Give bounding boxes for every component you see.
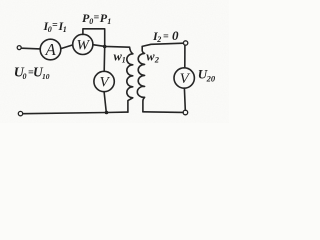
label U0=U10 xyxy=(14,64,50,81)
ammeter A1 circle xyxy=(40,39,61,60)
secondary top wire xyxy=(142,43,183,46)
label P0=P1 xyxy=(82,11,111,26)
wire A to W xyxy=(61,45,73,49)
wire input to ammeter xyxy=(22,47,41,50)
terminal bottom-left xyxy=(18,111,22,115)
wire to voltmeter V2 xyxy=(184,45,186,67)
node junction top xyxy=(103,45,107,49)
wattmeter potential-coil bracket xyxy=(83,29,105,47)
wattmeter W1 circle xyxy=(73,34,93,54)
voltmeter V2 circle xyxy=(174,68,194,88)
voltmeter V1 circle xyxy=(94,71,114,91)
terminal top-right xyxy=(183,41,187,45)
label U20 xyxy=(198,66,216,83)
node junction bottom xyxy=(105,111,109,115)
winding w1 coil xyxy=(127,54,133,112)
label I0=I1 xyxy=(43,19,67,34)
label w1 xyxy=(114,50,126,65)
wire W to primary top xyxy=(93,45,133,54)
label I2=0 xyxy=(152,28,179,44)
terminal top-left xyxy=(17,46,21,50)
secondary bottom wire xyxy=(143,111,183,114)
wire V1 to bottom xyxy=(104,92,106,113)
wire V2 to bottom terminal xyxy=(183,88,186,110)
bottom wire xyxy=(23,112,128,114)
terminal bottom-right xyxy=(183,110,188,115)
label w2 xyxy=(146,50,160,65)
wire to voltmeter V1 xyxy=(103,47,106,72)
winding w2 coil xyxy=(137,46,144,111)
